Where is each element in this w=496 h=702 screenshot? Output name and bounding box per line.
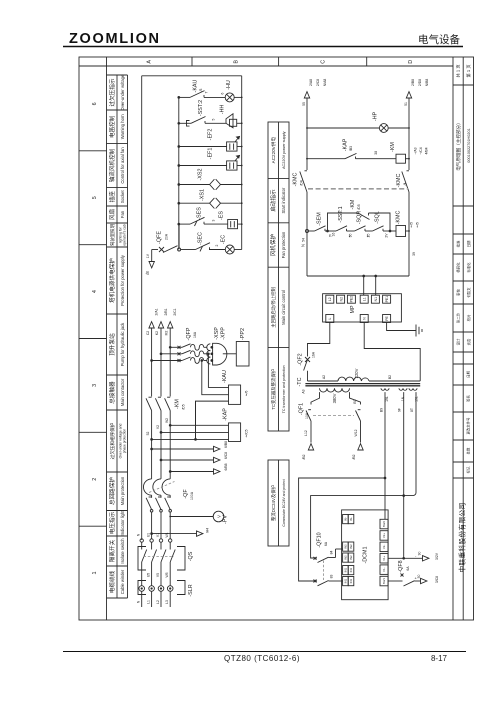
svg-text:K2: K2 [155,331,159,335]
wire L bus (right edge of box) [241,76,243,250]
svg-text:6: 6 [221,92,225,94]
wire lower rail SW1 through QF8 to ref arrow [388,578,427,586]
contact cross reference list under KM [414,147,429,154]
svg-text:/4: /4 [403,182,407,185]
svg-text:SW2: SW2 [382,521,386,528]
svg-text:主回路启动/停止控制: 主回路启动/停止控制 [270,286,277,327]
svg-text:Fan: Fan [120,210,125,218]
wire branch4 [179,165,242,167]
svg-text:Main protection: Main protection [120,476,125,505]
svg-text:C: C [321,60,327,64]
svg-text:-KM: -KM [350,199,356,209]
svg-text:39: 39 [412,252,416,256]
wire feed B branch to QF10 upper [311,496,404,558]
svg-text:标记: 标记 [466,466,471,473]
svg-text:-SEM: -SEM [317,212,323,226]
svg-text:~/A3: ~/A3 [414,147,418,154]
wire right bus [408,98,410,276]
fan unit -EF1 [227,155,240,170]
socket -XS2 [210,179,221,190]
wire HP branch [307,127,409,129]
svg-text:V1: V1 [156,533,160,537]
svg-text:W12: W12 [354,429,358,436]
svg-text:380V: 380V [332,393,337,403]
svg-text:phase protection: phase protection [123,429,127,454]
svg-text:/D5: /D5 [357,204,361,209]
svg-text:ZOOMLION: ZOOMLION [69,31,161,47]
svg-text:QTZ80 (TC6012-6): QTZ80 (TC6012-6) [224,654,300,663]
svg-text:50: 50 [417,575,421,579]
labels N U1 V1 W1 [137,532,169,537]
svg-text:电气原理图（主控部分）: 电气原理图（主控部分） [455,120,462,171]
svg-text:Socket: Socket [120,189,125,203]
svg-text:8T: 8T [410,408,414,412]
lamp -HP [379,124,388,133]
switch -SQL [373,226,384,231]
switch -SES [190,217,205,226]
svg-text:Commutate DC24V and protect: Commutate DC24V and protect [282,479,286,526]
svg-text:签名: 签名 [466,395,471,402]
svg-text:3/2V: 3/2V [435,552,439,560]
svg-text:-DCM1: -DCM1 [363,546,369,563]
svg-text:3: 3 [92,384,98,387]
svg-text:IN1: IN1 [349,567,353,572]
wire N bus (left edge of box, continues down to isolator) [141,76,143,540]
svg-text:6: 6 [92,102,98,105]
svg-text:-XS2: -XS2 [198,169,204,181]
svg-text:-HH: -HH [220,105,226,115]
svg-text:20A: 20A [165,233,169,240]
lamp -EC [225,245,234,254]
wire MP L to QF2 [308,323,330,357]
labels aux secondary [385,396,419,402]
title block signature cells [455,240,471,345]
contact -KMC on left bus [300,171,307,192]
svg-text:V2: V2 [156,425,160,429]
svg-text:L12: L12 [304,430,308,436]
svg-text:2/B8: 2/B8 [411,79,415,86]
svg-text:52: 52 [146,432,150,436]
svg-text:1V: 1V [146,253,150,258]
svg-text:标准化: 标准化 [466,262,471,273]
relay -KAU [229,385,241,404]
svg-text:启动指示: 启动指示 [269,189,277,212]
svg-text:风扇: 风扇 [108,209,116,221]
svg-text:/D5: /D5 [182,404,186,409]
svg-text:00010022701H0201: 00010022701H0201 [467,128,471,162]
switch -SST:1 (key) [336,226,347,231]
svg-text:中联重科股份有限公司: 中联重科股份有限公司 [458,503,467,573]
svg-text:V2-: V2- [382,545,386,550]
wire KAP/KM branch [307,158,409,160]
svg-text:Isolate switch: Isolate switch [120,538,125,564]
sheet ref arrow up (right bus) [406,92,411,98]
svg-text:IN2: IN2 [349,544,353,549]
labels phase source refs [146,308,177,335]
contact -KM (self hold) [358,213,370,220]
svg-text:-QS: -QS [188,551,194,561]
svg-text:83: 83 [330,575,334,579]
svg-text:AC220V power supply: AC220V power supply [282,131,286,169]
svg-text:6/B8: 6/B8 [224,441,228,448]
svg-text:第 1 页: 第 1 页 [465,64,472,77]
svg-text:4: 4 [92,290,98,293]
svg-text:AC220V供电: AC220V供电 [270,137,277,164]
svg-text:L1: L1 [362,297,366,301]
cross reference right of KMC coil [410,222,420,228]
DCM1 right terminals [380,519,388,586]
svg-text:/B2: /B2 [302,454,306,459]
wire left bus [306,98,308,276]
relay -KAP [229,423,241,442]
svg-text:-QFE: -QFE [157,231,163,244]
svg-text:过欠压指示: 过欠压指示 [108,78,116,106]
svg-text:10A: 10A [305,412,309,419]
svg-text:90: 90 [418,552,422,556]
wire branch7 [179,223,242,225]
svg-text:A3: A3 [302,389,306,393]
svg-text:220V: 220V [354,368,359,378]
sheet ref arrows up (phases) [149,322,173,328]
wire from aux coil 1 down to SW2 [384,392,386,519]
svg-text:-EF1: -EF1 [208,148,214,160]
wire stubs into slip rings [142,581,171,586]
labels dest refs right bus [411,79,429,87]
inner strip english labels [281,131,286,526]
lamp -HU [225,93,234,102]
svg-text:共 1 页: 共 1 页 [455,64,462,77]
svg-text:-KAU: -KAU [222,370,228,383]
wire phase L3 [169,328,171,539]
svg-text:L2: L2 [156,600,160,604]
title block revision header cells [466,371,471,474]
svg-text:审核: 审核 [455,289,460,296]
winding TC secondary aux coils [381,388,417,390]
svg-text:Protection for power supply: Protection for power supply [120,254,125,306]
wire branch6 [179,202,242,204]
svg-text:过欠压和相序保护: 过欠压和相序保护 [109,422,116,459]
svg-text:-ES: -ES [219,211,225,220]
svg-text:38: 38 [374,151,378,155]
slip ring rings [139,586,173,607]
svg-text:-QF: -QF [183,489,189,499]
wire taps to QFP [151,346,182,362]
svg-text:M2: M2 [164,331,168,336]
svg-text:4/B4: 4/B4 [424,147,428,154]
svg-text:隔离开关: 隔离开关 [108,539,116,562]
svg-text:V5: V5 [156,573,160,577]
contact -KAU [190,91,205,98]
svg-text:W5: W5 [165,572,169,577]
title block column lines [453,57,474,620]
svg-text:/A4: /A4 [206,528,210,533]
svg-text:V1-: V1- [382,567,386,572]
svg-text:IN-: IN- [349,517,353,521]
title block page cells 共1页 / 第1页 [455,64,472,77]
wire KM self-hold loop [327,213,391,232]
svg-text:-QFP: -QFP [186,327,192,340]
svg-text:电气设备: 电气设备 [418,33,460,46]
svg-text:W1: W1 [165,532,169,537]
svg-text:B: B [233,60,239,64]
breaker -QF (main 3 pole) [143,479,171,512]
wire from aux coil 2 down (feed B) [403,392,405,559]
zone numbers 6..1 [92,102,98,574]
svg-text:C2: C2 [146,331,150,335]
svg-text:2: 2 [215,244,219,246]
svg-text:Fan protection: Fan protection [281,231,286,258]
svg-text:IN1: IN1 [343,567,347,572]
wire from aux coil 3 joining feed B [404,392,416,496]
svg-text:2/A8: 2/A8 [309,79,313,86]
svg-text:-EF2: -EF2 [208,129,214,141]
svg-text:55: 55 [302,102,306,106]
wire feed A (to QF10 lower) [299,478,385,581]
svg-text:IN2: IN2 [343,544,347,549]
svg-text:-XS1: -XS1 [200,189,206,201]
coil -KMC [396,226,406,237]
contact -SST2 (key switch) [187,117,206,127]
svg-text:-SLR: -SLR [188,584,194,596]
DCM1 left terminal pairs [343,515,354,586]
svg-text:日期: 日期 [466,240,471,247]
svg-text:-KAP: -KAP [223,408,229,421]
node branch1 junctions [178,97,180,226]
svg-text:Warning horn: Warning horn [120,114,125,140]
wire taps to down arrows [151,448,214,472]
breaker -QF8 [401,574,404,577]
contact -KAP [345,153,357,158]
breaker -QF10 (2 pole) [314,549,343,586]
slip ring -SLR group brackets [138,581,185,595]
isolator -QS group brackets [138,547,185,571]
svg-text:3: 3 [212,219,216,221]
svg-text:2/A1: 2/A1 [155,308,159,315]
contact -KM (main, 3 pole) [146,397,170,410]
svg-text:TC transformer and protection: TC transformer and protection [282,365,286,413]
svg-text:插座: 插座 [108,191,116,203]
svg-text:2V: 2V [385,233,389,238]
svg-text:84: 84 [330,551,334,555]
wire branch2 [179,122,242,124]
svg-text:-KAU: -KAU [193,79,199,92]
wire branch8 feed [152,250,242,262]
coil -KM [396,154,406,163]
svg-text:-QF8: -QF8 [398,560,404,572]
svg-text:张二玲: 张二玲 [455,312,460,323]
svg-text:MP: MP [350,305,356,313]
drawing outer frame [79,57,474,620]
svg-text:L: L [328,317,332,319]
svg-text:轴流风机控制: 轴流风机控制 [108,148,116,182]
wire phase L2 [160,328,162,539]
svg-text:/B3: /B3 [349,146,353,151]
inner frame line left [106,57,108,620]
svg-text:L2: L2 [328,297,332,301]
breaker -QF2 [304,357,310,381]
svg-text:19L: 19L [385,396,389,402]
switch -SQR [355,226,366,231]
zone letter ticks top [192,57,367,66]
function description table (left strip) [107,75,128,598]
svg-text:IN1: IN1 [349,578,353,583]
svg-text:塔机电源供电保护: 塔机电源供电保护 [108,258,116,303]
svg-text:-KM: -KM [390,142,396,152]
svg-text:校对: 校对 [466,314,471,321]
svg-text:-XPP: -XPP [221,327,227,340]
svg-text:6A: 6A [324,541,328,546]
svg-text:整流DC24V及保护: 整流DC24V及保护 [270,484,277,521]
dashed linkage QS [144,556,175,558]
svg-text:20: 20 [367,234,371,238]
svg-text:/B2: /B2 [352,454,356,459]
transformer TC core [305,384,420,386]
inner strip chinese labels [269,137,277,521]
svg-text:16A: 16A [312,351,316,358]
header rule [63,46,463,48]
svg-text:6A: 6A [406,566,410,571]
function table english labels [119,74,127,594]
svg-text:PE1: PE1 [385,296,389,303]
wire L feeder (vertical inside box) [178,97,180,249]
svg-text:-XSP: -XSP [214,327,220,340]
svg-text:W2: W2 [165,418,169,423]
svg-text:1: 1 [92,572,98,575]
svg-text:批准: 批准 [455,240,460,247]
svg-text:-QF10: -QF10 [317,532,323,547]
svg-text:50: 50 [349,234,353,238]
coil1 [399,388,407,390]
winding TC primary 220V [338,377,369,381]
labels under QS [146,572,169,577]
svg-text:19L: 19L [415,396,419,402]
sheet ref arrow up (left bus) [304,92,309,98]
svg-text:B9: B9 [380,408,384,412]
wire primary [308,380,421,382]
svg-text:D: D [408,60,414,64]
svg-text:驾驶室照明: 驾驶室照明 [109,223,116,246]
wire start branch [309,230,410,232]
svg-text:IN2: IN2 [343,555,347,560]
svg-text:-SST:1: -SST:1 [338,206,344,222]
svg-text:1N: 1N [401,396,405,401]
fan unit -ES [228,220,238,229]
labels aux secondary wire numbers [380,408,415,412]
svg-text:N2: N2 [339,297,343,301]
labels dest refs left bus [309,79,327,87]
svg-text:5: 5 [212,118,216,120]
svg-text:-HU: -HU [226,80,232,90]
wire MP N to primary right [364,323,420,382]
svg-text:~/C4: ~/C4 [419,147,423,154]
svg-text:U1: U1 [146,533,150,537]
svg-text:N1: N1 [374,297,378,301]
svg-text:设计: 设计 [455,338,460,345]
svg-text:电笛控制: 电笛控制 [108,115,116,138]
svg-text:100A: 100A [190,491,194,500]
svg-text:风机保护: 风机保护 [269,233,277,256]
MP top terminals [326,295,391,303]
svg-text:B2: B2 [388,375,392,379]
svg-text:-QF1: -QF1 [299,403,305,415]
function table chinese labels [108,78,116,593]
zone number ticks left [79,151,107,526]
horn -HH [222,114,237,128]
svg-text:≃/6: ≃/6 [245,391,249,397]
ground symbol [416,325,422,337]
svg-text:-HP: -HP [373,111,379,121]
wire branch1 [179,96,242,98]
svg-text:16A: 16A [193,331,197,338]
svg-text:≃/5: ≃/5 [415,222,419,228]
isolator -QS blades [142,542,176,581]
svg-text:-KM: -KM [175,399,181,409]
wire upper rail V1+ to ref arrow [388,556,429,561]
svg-text:51: 51 [404,102,408,106]
wire branch3 [179,146,242,148]
svg-text:总回路保护: 总回路保护 [108,477,116,505]
svg-text:-TC: -TC [297,377,303,386]
svg-text:-SST:2: -SST:2 [198,100,204,116]
svg-text:-PP2: -PP2 [240,328,246,340]
svg-text:-PV: -PV [223,515,229,524]
wire taps to KAP [151,424,229,440]
voltmeter -PV [213,511,224,522]
svg-text:U5: U5 [146,573,150,577]
dashed link QF1 [313,415,354,417]
svg-text:总接触器: 总接触器 [108,381,116,404]
breaker -QFP (3 pole with thermal elements) [182,344,207,364]
svg-text:5: 5 [92,196,98,199]
svg-text:V: V [216,515,221,518]
svg-text:处数: 处数 [466,447,471,454]
svg-text:8-17: 8-17 [431,654,448,663]
svg-text:operator's cab: operator's cab [123,224,127,245]
labels wire numbers U2 V2 W2 [146,418,169,436]
svg-text:Start indicator: Start indicator [281,187,286,213]
inner function strip (middle of drawing) [268,122,289,546]
power module -DCM1 [342,510,389,600]
wire phase L1 [151,328,153,539]
svg-text:16: 16 [332,233,336,237]
svg-text:日期: 日期 [466,371,471,378]
node terminal on left bus [306,230,309,233]
switch -SEM [315,226,326,231]
winding TC secondary 380V [320,388,350,392]
sheet ref arrows right (to zone B8/C8) [214,446,220,474]
svg-text:电压指示: 电压指示 [108,511,116,534]
svg-text:-SES: -SES [197,207,203,220]
svg-text:/D4: /D4 [300,180,304,185]
svg-text:2/C8: 2/C8 [316,79,320,86]
breaker -QFE [159,246,181,253]
svg-text:-SEC: -SEC [198,232,204,245]
wire KAU input 2 [201,360,229,395]
svg-text:-KAP: -KAP [343,138,349,151]
switch -SEC [196,243,211,252]
svg-text:≃/C5: ≃/C5 [245,429,249,437]
labels under SLR [137,600,169,604]
svg-text:武岩: 武岩 [466,338,471,345]
svg-text:-QF2: -QF2 [298,353,304,365]
svg-text:-EC: -EC [221,235,227,244]
svg-text:6/C8: 6/C8 [224,452,228,459]
plug-socket -XSP -XPP [207,343,237,365]
svg-text:9F: 9F [398,408,402,412]
wire to voltmeter [170,516,213,518]
svg-text:2/D8: 2/D8 [418,79,422,86]
svg-text:V2+: V2+ [382,533,386,539]
